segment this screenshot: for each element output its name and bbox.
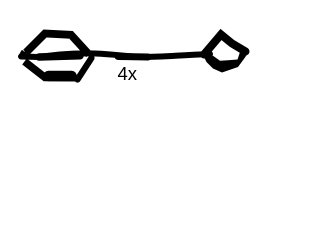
svg-text:4x: 4x bbox=[118, 63, 138, 84]
